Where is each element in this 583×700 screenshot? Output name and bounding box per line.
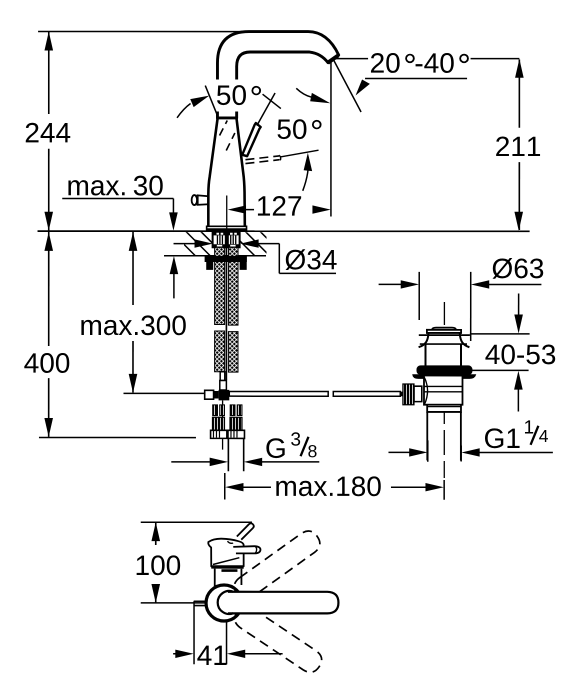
top view: pivot circle xyxy=(206,585,242,621)
swivel arc right xyxy=(296,88,330,103)
top view: dashed lever down position xyxy=(231,602,326,676)
top view: extension line handle axis xyxy=(141,602,206,604)
label Ø63 xyxy=(379,258,544,341)
lever extension line xyxy=(280,150,318,157)
dimension 41 xyxy=(173,601,283,665)
label G 3/8 xyxy=(171,432,319,466)
top view: body column xyxy=(215,569,242,586)
supply hoses xyxy=(215,247,238,372)
drain valve body xyxy=(424,376,463,405)
extension line top of spout xyxy=(38,31,248,33)
top view: spout from above xyxy=(237,523,254,539)
top view: lever lug xyxy=(233,546,260,553)
spout tube xyxy=(217,32,338,118)
label 50 deg lever xyxy=(277,119,321,139)
swivel arc left xyxy=(177,96,209,118)
drain seal ring xyxy=(412,365,476,379)
label 40-53 xyxy=(468,294,555,412)
drain lift knob xyxy=(427,328,461,333)
label max. 30 xyxy=(62,176,178,299)
riser seam xyxy=(216,117,238,119)
dimension 400 xyxy=(24,232,196,438)
drain coupling xyxy=(427,405,461,412)
spout outlet face xyxy=(328,55,339,62)
supply pipe xyxy=(228,438,243,471)
spout angle line xyxy=(334,61,361,113)
top view: dashed lever up position xyxy=(230,527,324,603)
label G1 1/4 xyxy=(388,420,552,461)
counter hatch right xyxy=(240,232,267,255)
arc 50 lever xyxy=(303,153,312,191)
label 50 deg swivel xyxy=(212,79,266,111)
drain centerline upper xyxy=(443,302,445,325)
lever leader line xyxy=(257,93,275,126)
spout tip extension line xyxy=(330,60,332,217)
rod clamp xyxy=(205,390,230,401)
top view: extension line spout tip xyxy=(141,521,252,523)
dimension 100 xyxy=(137,522,181,603)
dimension max.300 xyxy=(81,232,204,393)
pull rod knob xyxy=(192,195,209,205)
counter hatch left xyxy=(184,232,214,255)
label 20-40 deg with leader xyxy=(334,53,520,96)
check valve left xyxy=(212,405,224,430)
mounting flange under counter xyxy=(205,256,247,270)
dashed lever raised position xyxy=(220,120,235,150)
pop-up rod vertical xyxy=(220,380,227,449)
drain centerline lower xyxy=(443,412,445,478)
lever handle xyxy=(242,123,260,156)
label Ø34 xyxy=(174,239,337,273)
dimension max.180 xyxy=(225,473,444,500)
drain knurled adjuster xyxy=(400,384,422,405)
connector flanges xyxy=(211,430,245,438)
counter top line xyxy=(38,230,530,232)
dimension 127 xyxy=(228,196,331,216)
faucet body xyxy=(208,118,245,227)
top view: cartridge cap xyxy=(208,539,243,567)
base plate xyxy=(207,226,247,231)
left hose end stub xyxy=(220,372,225,381)
faucet centerline xyxy=(226,195,228,231)
top view: cap dark band xyxy=(211,565,243,568)
pop-up rod behind hoses xyxy=(225,248,227,380)
top view: lever hub circle xyxy=(218,591,233,614)
dimension 244 xyxy=(26,32,71,231)
drain tailpipe xyxy=(427,412,461,461)
top view: rod stub xyxy=(194,601,207,605)
swivel tick left xyxy=(205,86,218,117)
drain flange flare xyxy=(419,333,470,347)
lever tick X xyxy=(263,94,281,108)
threaded shank xyxy=(213,232,240,247)
top view: lever capsule solid xyxy=(228,592,339,614)
dashed lever closed position xyxy=(245,155,280,163)
drain neck xyxy=(425,344,461,366)
counter bottom line xyxy=(164,255,266,257)
check valve right xyxy=(230,405,242,430)
horizontal pop-up rod xyxy=(229,391,400,396)
dimension 211 xyxy=(496,59,540,231)
